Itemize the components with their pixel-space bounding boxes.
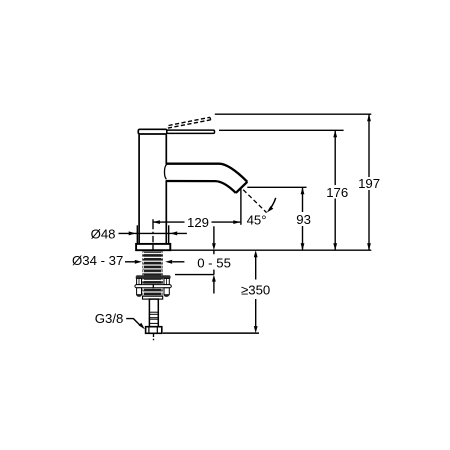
washer capsule band (135, 285, 171, 288)
centerline axis upper (152, 219, 154, 251)
dashed spout axis (222, 169, 266, 212)
dim D48 (91, 225, 187, 243)
dashed raised lever (168, 117, 211, 128)
wire ext-93 (247, 186, 306, 188)
wire ext-197 (215, 113, 371, 115)
faucet handle lever (167, 130, 215, 133)
svg-text:93: 93 (296, 212, 311, 227)
shank end cap (143, 296, 163, 299)
dim 93 (296, 187, 311, 250)
centerline dash on capsule (152, 284, 154, 288)
svg-text:0 - 55: 0 - 55 (197, 256, 231, 271)
faucet base flange (136, 244, 170, 250)
supply tube (149, 299, 159, 327)
svg-text:G3/8: G3/8 (95, 311, 124, 326)
washer legs upper (137, 278, 170, 284)
dim G38 (95, 311, 145, 329)
dim 197 (358, 114, 380, 250)
washer top bar (136, 275, 171, 278)
dim 0-55 (197, 226, 231, 293)
faucet spout (164, 164, 247, 193)
faucet cap (138, 129, 167, 134)
svg-text:≥350: ≥350 (241, 283, 270, 298)
dim 45deg (247, 198, 276, 228)
wire baseline (171, 249, 372, 251)
svg-text:129: 129 (187, 215, 209, 230)
G3/8 fitting (146, 327, 162, 334)
dim D34-37 (72, 253, 184, 268)
svg-text:197: 197 (358, 176, 380, 191)
spout socket arc (164, 164, 166, 179)
wire ext-176 (219, 129, 344, 131)
wire ext-tip (240, 188, 242, 225)
faucet column (139, 135, 166, 244)
dim 176 (326, 130, 348, 250)
dim 350 (241, 250, 270, 333)
svg-text:Ø48: Ø48 (91, 226, 116, 241)
threaded shank (142, 252, 163, 299)
svg-text:45°: 45° (247, 212, 267, 227)
svg-text:176: 176 (326, 185, 348, 200)
wire bottomline (163, 332, 259, 334)
nut legs lower (136, 288, 169, 297)
svg-text:Ø34 - 37: Ø34 - 37 (72, 253, 123, 268)
dim 129 (153, 215, 240, 230)
centerline below fitting (153, 334, 155, 341)
wire ext-55 (175, 274, 214, 276)
